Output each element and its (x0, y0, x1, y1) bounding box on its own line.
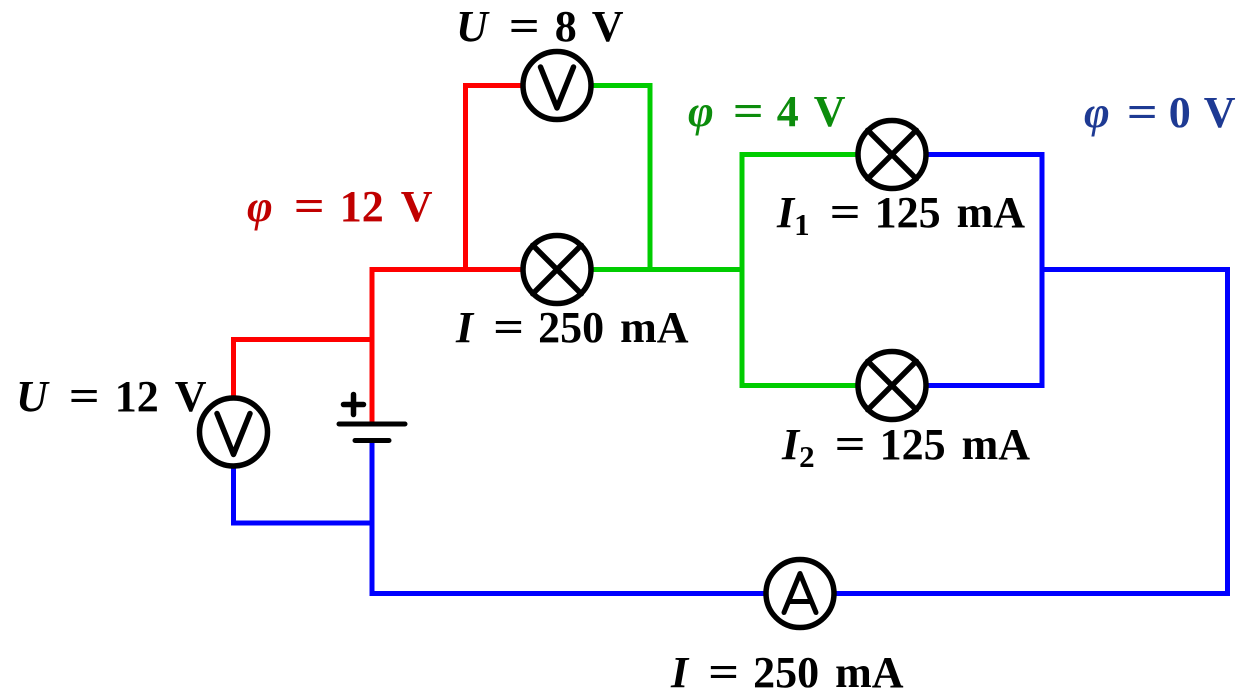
battery plus sign (344, 395, 364, 415)
lamp E1 (I1 = 125 mA) (858, 121, 926, 189)
lamp E (I = 250 mA) (523, 236, 591, 304)
ammeter A (I = 250 mA) (766, 560, 834, 628)
voltmeter U2 (U = 12 V) (200, 398, 268, 466)
wire green: main lamp right to parallel node (593, 267, 745, 272)
wire blue: voltmeter V2 bottom lead (234, 466, 375, 523)
wire red: battery plus up, right to main lamp (372, 270, 521, 423)
wire red: voltmeter V2 top lead (234, 340, 375, 396)
wire blue: parallel branch right side (927, 155, 1042, 386)
battery long plate (+) (339, 422, 405, 427)
wire red: V1 left lead down to node φ=12V (466, 86, 522, 270)
lamp E2 (I2 = 125 mA) (858, 352, 926, 420)
wire blue: node to right, down, bottom rail, up to battery minus (372, 270, 1228, 594)
wire green: parallel branch left side (742, 155, 857, 386)
battery short plate (-) (355, 438, 389, 443)
wire green: V1 right lead down to node (593, 86, 650, 270)
voltmeter U1 (U = 8 V) (523, 52, 591, 120)
